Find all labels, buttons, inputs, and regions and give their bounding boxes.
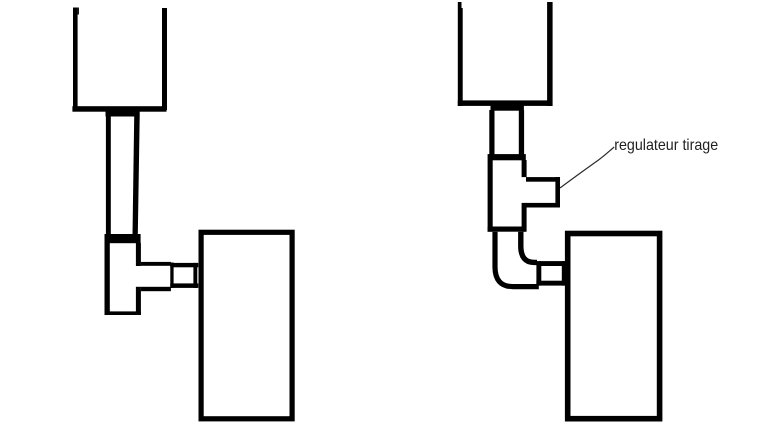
tee collar (left) <box>105 234 141 243</box>
leader line from stub to label <box>560 147 614 188</box>
tee branch stub / draft regulator (right) <box>526 177 560 207</box>
flue pipe lower segment with elbow (right) <box>495 232 539 287</box>
draft regulator tee body (right) <box>488 154 527 232</box>
coupling (right) <box>536 261 566 286</box>
chimney (left drawing) <box>72 8 167 112</box>
chimney (right drawing) <box>458 2 553 106</box>
coupling (left) <box>170 263 198 288</box>
stove (left drawing) <box>201 232 292 418</box>
chimney outlet collar (left) <box>106 112 140 117</box>
tee branch stub (left) <box>141 262 171 291</box>
stove (right drawing) <box>568 234 660 419</box>
svg-text:regulateur tirage: regulateur tirage <box>614 137 718 154</box>
chimney outlet collar (right) <box>491 104 524 111</box>
flue pipe upper segment (right) <box>489 110 524 155</box>
flue pipe (left) <box>106 116 140 235</box>
tee fitting body (left) <box>105 243 141 315</box>
